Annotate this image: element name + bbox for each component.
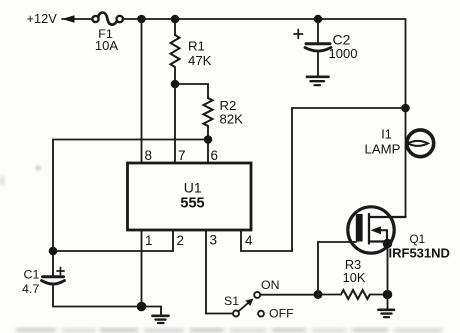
transistor Q1 body diode arrow bbox=[371, 226, 388, 243]
label R2 bbox=[220, 98, 237, 113]
pin 3 label bbox=[210, 233, 218, 248]
label 47K bbox=[188, 53, 212, 68]
wire R2 bottom to pin6 node bbox=[207, 126, 209, 140]
label 4.7 bbox=[22, 282, 39, 296]
svg-text:10K: 10K bbox=[343, 270, 366, 285]
junction pin8/rail bbox=[137, 15, 146, 24]
junction R1/R2/pin7 bbox=[171, 80, 180, 89]
wire rail to R1 bbox=[174, 19, 176, 35]
switch S1 arm with arrow bbox=[238, 299, 253, 312]
label S1 bbox=[224, 294, 239, 308]
wire pin6 node left and down left rail bbox=[53, 140, 208, 277]
label C1 bbox=[24, 268, 40, 282]
wire R1 bottom to pin7 node bbox=[174, 67, 176, 84]
junction R2/pin6/left wire bbox=[204, 135, 213, 144]
ground under C2 bbox=[307, 77, 329, 85]
pin 2 label bbox=[177, 233, 185, 248]
label I1 bbox=[381, 128, 392, 142]
wire pin4 horizontal bbox=[241, 250, 292, 252]
label R3 bbox=[345, 257, 361, 272]
resistor R1 bbox=[171, 35, 180, 67]
transistor Q1 source stub bbox=[369, 240, 388, 242]
svg-text:2: 2 bbox=[177, 233, 185, 248]
fuse F1 bbox=[92, 13, 123, 25]
transistor Q1 drain stub bbox=[369, 216, 406, 218]
label C2 bbox=[333, 31, 351, 47]
wire reset branch horizontal bbox=[292, 107, 406, 109]
pin 1 wire bbox=[141, 230, 143, 307]
label F1 bbox=[98, 27, 113, 41]
pin 2 wire bbox=[53, 230, 173, 251]
label ON bbox=[261, 278, 279, 292]
ground bottom middle bbox=[153, 307, 169, 324]
junction R3/source/ground bbox=[383, 290, 393, 300]
svg-text:47K: 47K bbox=[188, 53, 212, 68]
transistor Q1 gate bar bbox=[356, 214, 363, 242]
pin 4 label bbox=[245, 233, 253, 248]
wire C2 to ground bbox=[317, 53, 319, 76]
wire ON contact to gate node bbox=[260, 294, 318, 296]
wire gate node to R3 bbox=[318, 294, 341, 296]
wire C2 top bbox=[317, 19, 319, 43]
pin 7 label bbox=[178, 148, 186, 163]
svg-text:8: 8 bbox=[145, 148, 153, 163]
svg-text:I1: I1 bbox=[381, 128, 392, 142]
junction C1/pin2 bbox=[49, 247, 58, 256]
label R1 bbox=[188, 39, 205, 54]
switch S1 common contact bbox=[233, 311, 239, 317]
wire reset branch vertical bbox=[291, 108, 293, 251]
pin 3 wire bbox=[206, 230, 233, 314]
transistor Q1 body circle bbox=[348, 207, 394, 253]
svg-text:LAMP: LAMP bbox=[365, 142, 401, 157]
svg-text:R1: R1 bbox=[188, 39, 205, 54]
capacitor C1 bbox=[42, 277, 65, 284]
scan speck left bbox=[1, 167, 40, 186]
lamp I1 bbox=[407, 130, 434, 157]
svg-text:OFF: OFF bbox=[269, 307, 294, 321]
svg-text:C1: C1 bbox=[24, 268, 40, 282]
junction lamp branch bbox=[401, 104, 410, 113]
svg-text:82K: 82K bbox=[220, 112, 244, 127]
wire top rail and right drop to drain bbox=[123, 19, 406, 217]
svg-text:S1: S1 bbox=[224, 294, 239, 308]
plus sign C2 bbox=[294, 30, 303, 39]
wire R3 to source node bbox=[370, 294, 388, 296]
ground under source bbox=[379, 295, 395, 318]
label IRF531ND bbox=[389, 246, 450, 261]
transistor Q1 channel bar bbox=[368, 214, 370, 244]
svg-text:+12V: +12V bbox=[27, 11, 58, 26]
svg-text:IRF531ND: IRF531ND bbox=[389, 246, 450, 261]
pin 8 label bbox=[145, 148, 153, 163]
svg-text:555: 555 bbox=[180, 196, 204, 212]
svg-text:Q1: Q1 bbox=[410, 233, 426, 246]
junction gate/R3 bbox=[314, 290, 323, 299]
label 555 bbox=[180, 196, 204, 212]
wire node to R2 top bbox=[175, 84, 208, 98]
plus sign C1 bbox=[57, 268, 64, 275]
wire source vertical bbox=[387, 244, 389, 295]
svg-text:4.7: 4.7 bbox=[22, 282, 39, 296]
resistor R2 bbox=[204, 98, 213, 126]
svg-text:U1: U1 bbox=[184, 180, 202, 196]
label U1 bbox=[184, 180, 202, 196]
wire arrow to fuse bbox=[62, 15, 93, 22]
scan artifact strip at bottom bbox=[16, 329, 442, 333]
switch OFF contact bbox=[258, 311, 264, 317]
pin 6 label bbox=[211, 148, 219, 163]
svg-text:10A: 10A bbox=[95, 38, 118, 53]
switch ON contact bbox=[254, 292, 260, 298]
label OFF bbox=[269, 307, 294, 321]
svg-text:C2: C2 bbox=[333, 31, 351, 47]
label 10K bbox=[343, 270, 366, 285]
svg-text:7: 7 bbox=[178, 148, 186, 163]
svg-text:ON: ON bbox=[261, 278, 279, 292]
capacitor C2 bbox=[305, 44, 331, 51]
junction source dot bbox=[383, 239, 393, 249]
junction pin1/ground rail bbox=[137, 302, 147, 312]
pin 8 wire bbox=[141, 19, 143, 163]
label Q1 bbox=[410, 233, 426, 246]
op-amp U1 555 box bbox=[128, 163, 252, 230]
svg-text:1: 1 bbox=[145, 233, 153, 248]
label 10A bbox=[95, 38, 118, 53]
svg-text:1000: 1000 bbox=[329, 46, 358, 61]
label LAMP bbox=[365, 142, 401, 157]
label 82K bbox=[220, 112, 244, 127]
node +12V label bbox=[27, 11, 58, 26]
resistor R3 bbox=[341, 290, 370, 299]
wire C1 bottom to ground rail bbox=[53, 286, 161, 307]
wire gate vertical and lead bbox=[318, 242, 356, 295]
svg-text:3: 3 bbox=[210, 233, 218, 248]
pin 1 label bbox=[145, 233, 153, 248]
junction C2/rail bbox=[314, 15, 322, 23]
pin 4 wire bbox=[240, 230, 242, 251]
pin 6 wire bbox=[207, 140, 209, 164]
pin 7 wire bbox=[174, 84, 176, 163]
label 1000 bbox=[329, 46, 358, 61]
svg-text:6: 6 bbox=[211, 148, 219, 163]
junction R1/rail bbox=[171, 15, 180, 24]
svg-text:4: 4 bbox=[245, 233, 253, 248]
